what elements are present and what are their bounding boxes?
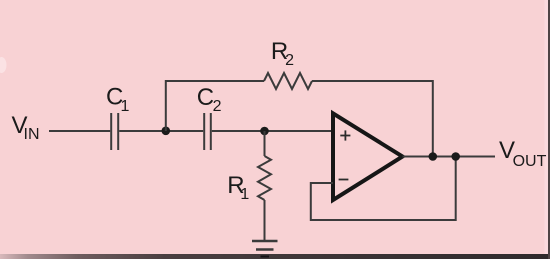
light pink strip inside right edge bbox=[545, 0, 549, 259]
label C2 bbox=[197, 84, 222, 115]
label R1 bbox=[227, 172, 249, 203]
wire: VIN to C1 bbox=[49, 130, 110, 132]
label VOUT bbox=[499, 137, 547, 170]
label C1 bbox=[106, 83, 130, 114]
bottom shadow band bbox=[0, 254, 550, 259]
svg-text:C: C bbox=[197, 84, 214, 111]
op-amp U1 bbox=[333, 113, 403, 200]
wire: C1 to C2 bbox=[119, 130, 203, 132]
svg-text:2: 2 bbox=[285, 52, 294, 69]
node B junction dot bbox=[260, 127, 269, 136]
node C junction dot bbox=[429, 152, 438, 161]
light spot on left edge bbox=[0, 57, 7, 73]
capacitor C2 bbox=[204, 113, 211, 150]
capacitor C1 bbox=[111, 113, 118, 150]
wire: R1 to ground bbox=[264, 200, 266, 241]
right edge dark line bbox=[548, 0, 550, 259]
ground bbox=[252, 241, 278, 257]
wire: R2 to output node bbox=[312, 81, 433, 157]
resistor R2 bbox=[264, 73, 312, 89]
resistor R1 bbox=[258, 156, 271, 200]
label R2 bbox=[271, 38, 294, 69]
wire: feedback branch up from node A bbox=[166, 81, 264, 131]
svg-text:1: 1 bbox=[240, 186, 249, 203]
wire: C2 to op-amp bbox=[212, 130, 333, 132]
svg-text:OUT: OUT bbox=[513, 153, 547, 170]
wire: op-amp output to VOUT bbox=[403, 156, 496, 158]
op-amp minus input sign bbox=[339, 179, 349, 181]
svg-text:2: 2 bbox=[213, 98, 222, 115]
node D junction dot bbox=[451, 152, 460, 161]
op-amp plus input sign bbox=[340, 130, 350, 140]
svg-text:1: 1 bbox=[121, 98, 130, 115]
wire: node B down to R1 bbox=[264, 131, 266, 156]
svg-text:IN: IN bbox=[24, 126, 40, 143]
wire: feedback from inverting input to output bbox=[311, 157, 456, 221]
label VIN bbox=[12, 112, 40, 143]
node A junction dot bbox=[162, 127, 171, 136]
